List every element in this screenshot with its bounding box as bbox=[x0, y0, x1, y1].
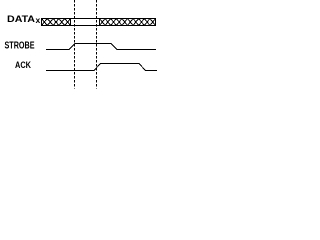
STROBE waveform bbox=[46, 44, 156, 50]
DATA bus hatch section 1 bbox=[42, 19, 71, 26]
DATA hatch section 2 start edge bbox=[99, 18, 101, 26]
DATA bus band top line bbox=[41, 18, 156, 20]
DATA bus band right edge bbox=[155, 18, 157, 26]
DATA bus band left edge bbox=[41, 18, 43, 26]
svg-text:STROBE: STROBE bbox=[5, 40, 35, 51]
svg-text:DATA: DATA bbox=[7, 14, 35, 25]
DATA hatch section 1 end edge bbox=[70, 18, 72, 26]
svg-text:x: x bbox=[36, 15, 41, 25]
ACK waveform bbox=[46, 64, 157, 71]
timing reference dashed line T1 bbox=[74, 0, 76, 89]
DATA bus hatch section 2 bbox=[100, 19, 156, 26]
DATA bus band bottom line bbox=[41, 25, 156, 27]
svg-text:ACK: ACK bbox=[15, 60, 31, 71]
timing reference dashed line T2 bbox=[96, 0, 98, 89]
